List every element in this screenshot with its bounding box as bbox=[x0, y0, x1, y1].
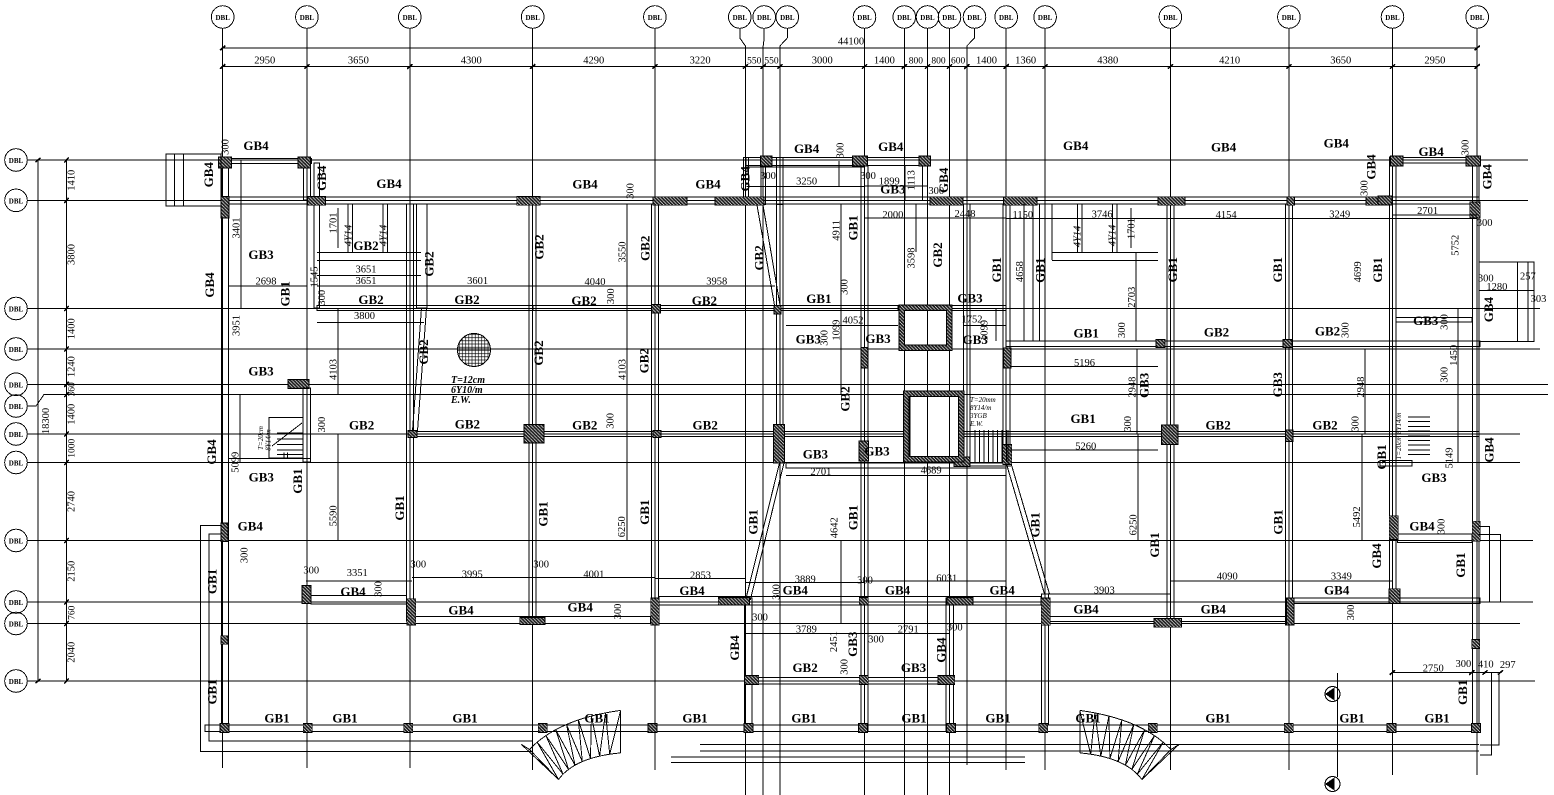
sloped beam D3 bbox=[1007, 465, 1050, 594]
svg-text:2451: 2451 bbox=[829, 631, 840, 652]
svg-text:DBL: DBL bbox=[403, 14, 418, 22]
svg-text:GB1: GB1 bbox=[264, 710, 289, 725]
beam GB1 y4 right bbox=[1006, 341, 1480, 347]
svg-text:GB4: GB4 bbox=[1481, 296, 1496, 322]
column bbox=[648, 724, 657, 733]
right balcony dim line bbox=[1479, 290, 1534, 292]
vbeam x1045 low bbox=[1042, 594, 1049, 725]
svg-text:GB1: GB1 bbox=[1205, 710, 1230, 725]
svg-text:3YGB: 3YGB bbox=[969, 412, 987, 420]
grid line V3 bbox=[399, 6, 422, 29]
svg-text:1113: 1113 bbox=[907, 170, 918, 190]
svg-text:300: 300 bbox=[1346, 605, 1357, 621]
svg-text:3746: 3746 bbox=[1092, 209, 1113, 220]
beam GB1 bottom bbox=[205, 725, 1480, 732]
svg-text:3903: 3903 bbox=[1094, 585, 1115, 596]
svg-text:GB2: GB2 bbox=[358, 292, 383, 307]
svg-text:DBL: DBL bbox=[9, 403, 24, 411]
svg-text:300: 300 bbox=[1437, 519, 1448, 535]
svg-text:GB1: GB1 bbox=[989, 257, 1004, 282]
column bbox=[859, 724, 868, 733]
svg-text:6031: 6031 bbox=[936, 573, 957, 584]
svg-text:600: 600 bbox=[951, 57, 966, 67]
beam GB4 row right bbox=[1288, 598, 1480, 603]
svg-text:GB2: GB2 bbox=[353, 238, 378, 253]
svg-text:DBL: DBL bbox=[9, 678, 24, 686]
svg-text:3250: 3250 bbox=[796, 176, 817, 187]
svg-text:GB1: GB1 bbox=[278, 281, 293, 306]
svg-text:GB3: GB3 bbox=[1136, 372, 1151, 398]
column bbox=[774, 306, 781, 315]
svg-text:4911: 4911 bbox=[831, 220, 842, 241]
svg-text:GB3: GB3 bbox=[248, 363, 274, 378]
dim line 3250 bbox=[746, 185, 864, 187]
beam GB1 y3 mid bbox=[533, 306, 898, 311]
svg-text:300: 300 bbox=[839, 659, 850, 675]
column bbox=[1470, 202, 1481, 218]
terrace outline left bbox=[201, 526, 533, 752]
column bbox=[298, 157, 311, 168]
vbeam x317 bbox=[314, 163, 320, 308]
dim line bbox=[626, 308, 628, 434]
svg-text:GB1: GB1 bbox=[1270, 509, 1285, 534]
svg-text:44100: 44100 bbox=[838, 37, 864, 48]
svg-text:4090: 4090 bbox=[1217, 572, 1238, 583]
column bbox=[718, 598, 749, 605]
overall dim 18300 bbox=[37, 160, 39, 681]
dim line 2000/2448 bbox=[865, 217, 1007, 219]
svg-text:300: 300 bbox=[772, 584, 783, 600]
svg-text:GB2: GB2 bbox=[1204, 325, 1229, 340]
svg-text:DBL: DBL bbox=[9, 157, 24, 165]
svg-text:300: 300 bbox=[868, 635, 884, 646]
grid line H11 bbox=[5, 612, 28, 635]
svg-text:DBL: DBL bbox=[9, 538, 24, 546]
dim line bbox=[1457, 394, 1459, 462]
grid line H1 bbox=[5, 149, 28, 172]
svg-text:GB4: GB4 bbox=[1063, 138, 1089, 153]
svg-text:GB4: GB4 bbox=[202, 272, 217, 298]
svg-text:DBL: DBL bbox=[967, 14, 982, 22]
svg-text:DBL: DBL bbox=[780, 14, 795, 22]
grid line H6 bbox=[5, 395, 28, 418]
small beams 4Y14 right bbox=[1078, 204, 1118, 252]
svg-text:DBL: DBL bbox=[757, 14, 772, 22]
column bbox=[954, 457, 970, 467]
svg-text:GB1: GB1 bbox=[332, 710, 357, 725]
vbeam x533 bbox=[529, 204, 536, 621]
svg-text:GB4: GB4 bbox=[1211, 140, 1237, 155]
column bbox=[1283, 340, 1292, 348]
grid line H5 bbox=[5, 373, 28, 396]
svg-text:760: 760 bbox=[68, 605, 78, 620]
grid line H12 bbox=[5, 670, 28, 693]
svg-text:4001: 4001 bbox=[583, 570, 604, 581]
dim line bbox=[1136, 349, 1138, 434]
dim line bbox=[786, 325, 898, 327]
column bbox=[919, 156, 931, 166]
svg-text:1150: 1150 bbox=[1012, 210, 1033, 221]
svg-text:300: 300 bbox=[374, 581, 385, 597]
svg-text:GB2: GB2 bbox=[422, 251, 437, 276]
dim line bbox=[317, 275, 421, 277]
svg-text:DBL: DBL bbox=[9, 460, 24, 468]
grid line V18 bbox=[1381, 6, 1404, 29]
svg-text:GB1: GB1 bbox=[584, 710, 609, 725]
svg-text:DBL: DBL bbox=[1470, 14, 1485, 22]
svg-text:DBL: DBL bbox=[9, 599, 24, 607]
svg-text:GB4: GB4 bbox=[1409, 519, 1435, 534]
svg-text:GB1: GB1 bbox=[1455, 680, 1470, 705]
shaft wall S1 bbox=[899, 305, 952, 350]
beam GB4 top-right room bbox=[1390, 158, 1480, 164]
svg-text:800: 800 bbox=[931, 57, 946, 67]
svg-text:GB2: GB2 bbox=[531, 340, 546, 365]
column bbox=[1162, 425, 1179, 445]
svg-text:6250: 6250 bbox=[1129, 514, 1140, 535]
svg-text:GB1: GB1 bbox=[535, 501, 550, 526]
vbeam x780 bbox=[777, 204, 784, 425]
svg-text:DBL: DBL bbox=[942, 14, 957, 22]
beam GB4 top-left room bbox=[219, 159, 312, 164]
dim line bbox=[1457, 308, 1459, 394]
vbeam x780 top bbox=[777, 158, 784, 205]
svg-text:GB4: GB4 bbox=[572, 177, 598, 192]
svg-text:GB3: GB3 bbox=[1413, 313, 1439, 328]
column bbox=[221, 523, 228, 542]
dim line bbox=[915, 204, 917, 252]
svg-text:3651: 3651 bbox=[356, 265, 377, 276]
column bbox=[1472, 640, 1480, 649]
svg-text:300: 300 bbox=[836, 143, 847, 159]
svg-text:4040: 4040 bbox=[585, 277, 606, 288]
svg-text:DBL: DBL bbox=[1163, 14, 1178, 22]
svg-text:300: 300 bbox=[857, 576, 873, 587]
svg-text:2701: 2701 bbox=[1417, 206, 1438, 217]
svg-text:GB1: GB1 bbox=[1074, 325, 1099, 340]
beam GB2 y3 left bbox=[317, 306, 533, 311]
grid line V17 bbox=[1278, 6, 1301, 29]
grid line H10 bbox=[5, 591, 28, 614]
svg-text:E.W.: E.W. bbox=[450, 395, 471, 406]
column bbox=[1003, 445, 1012, 465]
beam GB2 y7 bbox=[409, 432, 1479, 437]
svg-text:1701: 1701 bbox=[1127, 218, 1138, 239]
svg-text:2750: 2750 bbox=[1423, 664, 1444, 675]
column bbox=[517, 197, 541, 206]
svg-text:1545: 1545 bbox=[310, 267, 321, 288]
svg-text:GB4: GB4 bbox=[1481, 437, 1496, 463]
svg-text:4290: 4290 bbox=[583, 56, 604, 67]
svg-text:DBL: DBL bbox=[9, 381, 24, 389]
dim line bbox=[1045, 593, 1170, 595]
beam GB2 bottom room bbox=[745, 678, 955, 684]
grid line V15 bbox=[1034, 6, 1057, 29]
svg-text:2701: 2701 bbox=[810, 467, 831, 478]
svg-text:GB4: GB4 bbox=[1364, 154, 1379, 180]
svg-text:3800: 3800 bbox=[354, 311, 375, 322]
svg-text:DBL: DBL bbox=[300, 14, 315, 22]
dim line bbox=[337, 308, 339, 394]
svg-text:GB3: GB3 bbox=[803, 447, 829, 462]
grid line V19 bbox=[1466, 6, 1489, 29]
svg-text:300: 300 bbox=[820, 330, 831, 346]
svg-text:1000: 1000 bbox=[68, 439, 78, 458]
svg-text:GB2: GB2 bbox=[752, 245, 767, 270]
svg-text:5590: 5590 bbox=[329, 505, 340, 526]
svg-text:1360: 1360 bbox=[1015, 56, 1036, 67]
dim line bbox=[1361, 434, 1363, 540]
svg-text:GB4: GB4 bbox=[1324, 135, 1350, 150]
svg-text:300: 300 bbox=[1440, 367, 1451, 383]
svg-text:GB1: GB1 bbox=[1070, 411, 1095, 426]
column bbox=[404, 724, 413, 733]
svg-text:GB2: GB2 bbox=[572, 417, 597, 432]
svg-text:GB2: GB2 bbox=[692, 293, 717, 308]
svg-text:4154: 4154 bbox=[1216, 210, 1238, 221]
vbeam x745 top bbox=[743, 158, 748, 205]
svg-text:3598: 3598 bbox=[907, 248, 918, 269]
bottom right dim line bbox=[1392, 672, 1500, 674]
svg-text:GB1: GB1 bbox=[452, 710, 477, 725]
column bbox=[947, 598, 973, 605]
grid line V13 bbox=[963, 6, 986, 29]
svg-text:4380: 4380 bbox=[1097, 56, 1118, 67]
beam GB3 y3 right bbox=[952, 306, 1006, 311]
svg-text:GB2: GB2 bbox=[838, 386, 853, 411]
svg-text:3601: 3601 bbox=[467, 276, 488, 287]
beam GB3 right bbox=[1396, 318, 1472, 323]
svg-text:300: 300 bbox=[317, 290, 328, 306]
svg-text:1280: 1280 bbox=[1486, 282, 1507, 293]
column bbox=[308, 197, 326, 206]
column bbox=[1158, 197, 1185, 206]
svg-text:550: 550 bbox=[747, 57, 762, 67]
grid line V2 bbox=[296, 6, 319, 29]
column bbox=[1472, 521, 1480, 541]
svg-text:GB4: GB4 bbox=[878, 139, 904, 154]
column bbox=[1156, 340, 1165, 348]
svg-text:GB4: GB4 bbox=[340, 584, 366, 599]
vbeam x1288 bbox=[1285, 204, 1292, 625]
svg-text:300: 300 bbox=[1456, 659, 1472, 670]
svg-text:DBL: DBL bbox=[9, 431, 24, 439]
column bbox=[407, 599, 416, 625]
svg-text:2703: 2703 bbox=[1127, 287, 1138, 308]
svg-text:300: 300 bbox=[613, 604, 624, 620]
svg-text:2040: 2040 bbox=[67, 642, 78, 663]
vbeam x1036 bbox=[1033, 204, 1040, 341]
svg-text:GB2: GB2 bbox=[349, 418, 374, 433]
svg-text:1240: 1240 bbox=[67, 356, 78, 377]
partition lines top-center bbox=[746, 166, 865, 168]
column bbox=[653, 431, 661, 438]
section line bbox=[1337, 673, 1339, 777]
dim arrows 1701 left bbox=[337, 208, 339, 248]
svg-text:GB1: GB1 bbox=[901, 710, 926, 725]
svg-text:300: 300 bbox=[1461, 140, 1472, 156]
svg-text:1400: 1400 bbox=[67, 318, 78, 339]
svg-text:GB2: GB2 bbox=[416, 339, 431, 364]
overall dim 44100 bbox=[223, 47, 1478, 49]
svg-text:4642: 4642 bbox=[830, 517, 841, 538]
svg-text:300: 300 bbox=[606, 288, 617, 304]
svg-text:2950: 2950 bbox=[1424, 56, 1445, 67]
svg-text:GB2: GB2 bbox=[532, 234, 547, 259]
svg-text:GB1: GB1 bbox=[1339, 710, 1364, 725]
grid line V6 bbox=[729, 6, 752, 29]
svg-text:300: 300 bbox=[928, 186, 944, 197]
svg-text:GB4: GB4 bbox=[794, 141, 820, 156]
svg-text:GB1: GB1 bbox=[1165, 257, 1180, 282]
svg-text:GB1: GB1 bbox=[1270, 257, 1285, 282]
svg-text:3800: 3800 bbox=[67, 244, 78, 265]
svg-text:800: 800 bbox=[909, 57, 924, 67]
column bbox=[938, 676, 955, 685]
dim line bbox=[1137, 434, 1139, 540]
column bbox=[220, 724, 229, 733]
svg-text:GB4: GB4 bbox=[737, 166, 752, 192]
dim line bbox=[1010, 366, 1158, 368]
column bbox=[1039, 724, 1048, 733]
svg-text:1410: 1410 bbox=[67, 170, 78, 191]
svg-text:1400: 1400 bbox=[874, 56, 895, 67]
hatched circle column bbox=[458, 334, 491, 367]
svg-text:2150: 2150 bbox=[67, 561, 78, 582]
column bbox=[302, 586, 311, 604]
shaft wall S2 bbox=[903, 391, 964, 462]
dim line bbox=[840, 308, 842, 394]
svg-text:3789: 3789 bbox=[796, 625, 817, 636]
dim line bbox=[864, 580, 1006, 582]
fan stair left bbox=[522, 710, 621, 779]
vbeam x421 bbox=[417, 204, 428, 308]
svg-text:3220: 3220 bbox=[690, 56, 711, 67]
svg-text:2948: 2948 bbox=[1128, 377, 1139, 398]
column bbox=[1287, 598, 1295, 625]
column bbox=[1389, 516, 1398, 540]
svg-text:GB4: GB4 bbox=[1324, 583, 1350, 598]
grid line H8 bbox=[5, 451, 28, 474]
vbeam x746 room bbox=[745, 598, 752, 731]
svg-text:4658: 4658 bbox=[1015, 261, 1026, 282]
svg-text:GB4: GB4 bbox=[1418, 144, 1444, 159]
svg-text:DBL: DBL bbox=[9, 306, 24, 314]
svg-text:GB3: GB3 bbox=[864, 444, 890, 459]
dim line bbox=[840, 204, 842, 308]
svg-text:GB3: GB3 bbox=[1270, 372, 1285, 398]
dim line bbox=[306, 580, 412, 582]
svg-text:3351: 3351 bbox=[347, 568, 368, 579]
svg-text:GB4: GB4 bbox=[1479, 164, 1494, 190]
svg-text:3650: 3650 bbox=[1330, 56, 1351, 67]
dim line bbox=[317, 285, 775, 287]
svg-text:4103: 4103 bbox=[329, 359, 340, 380]
svg-text:E.W.: E.W. bbox=[969, 420, 983, 428]
dim line bbox=[746, 582, 864, 584]
grid line V4 bbox=[521, 6, 544, 29]
svg-text:GB4: GB4 bbox=[885, 583, 911, 598]
svg-text:4Y14: 4Y14 bbox=[379, 224, 390, 246]
svg-text:300: 300 bbox=[752, 613, 768, 624]
fan stair right bbox=[1080, 710, 1179, 779]
column bbox=[1378, 196, 1392, 205]
svg-text:GB1: GB1 bbox=[1075, 710, 1100, 725]
svg-text:GB4: GB4 bbox=[1369, 543, 1384, 569]
svg-text:GB4: GB4 bbox=[201, 162, 216, 188]
column bbox=[745, 676, 759, 685]
svg-text:GB2: GB2 bbox=[930, 242, 945, 267]
svg-text:257: 257 bbox=[1520, 272, 1536, 283]
svg-text:DBL: DBL bbox=[733, 14, 748, 22]
svg-text:1400: 1400 bbox=[67, 404, 78, 425]
svg-text:1450: 1450 bbox=[1449, 345, 1460, 366]
svg-text:GB4: GB4 bbox=[238, 519, 264, 534]
svg-text:DBL: DBL bbox=[897, 14, 912, 22]
vbeam x966 bbox=[963, 204, 970, 457]
grid line V12 bbox=[938, 6, 961, 29]
dim line bbox=[626, 204, 628, 434]
svg-text:18300: 18300 bbox=[41, 408, 52, 434]
dim line bbox=[337, 434, 339, 540]
vbeam x306 room bbox=[304, 163, 311, 200]
svg-text:GB1: GB1 bbox=[682, 710, 707, 725]
svg-text:300: 300 bbox=[1123, 416, 1134, 432]
small beams 4Y14 left bbox=[348, 204, 388, 252]
svg-text:GB2: GB2 bbox=[1312, 417, 1337, 432]
grid line H2 bbox=[5, 189, 28, 212]
svg-text:GB4: GB4 bbox=[314, 165, 329, 191]
beam GB4 row main bbox=[659, 597, 1041, 605]
vbeam x1006 bbox=[1003, 204, 1010, 462]
svg-text:GB4: GB4 bbox=[204, 439, 219, 465]
svg-text:4Y14: 4Y14 bbox=[1073, 225, 1084, 247]
stair room beam bbox=[228, 458, 310, 460]
terrace outline right bbox=[1480, 673, 1499, 756]
staircase top-right bbox=[1408, 417, 1430, 455]
svg-text:300: 300 bbox=[760, 171, 776, 182]
dim line bbox=[746, 633, 864, 635]
vbeam right edge bbox=[1472, 157, 1479, 731]
dim line bbox=[412, 577, 533, 579]
svg-text:3550: 3550 bbox=[618, 242, 629, 263]
svg-text:6250: 6250 bbox=[617, 516, 628, 537]
svg-text:2791: 2791 bbox=[898, 625, 919, 636]
vbeam x949 room bbox=[946, 598, 953, 731]
svg-text:1099: 1099 bbox=[980, 320, 991, 341]
svg-text:GB1: GB1 bbox=[1032, 258, 1047, 283]
svg-text:DBL: DBL bbox=[215, 14, 230, 22]
dim line bbox=[864, 633, 950, 635]
beam GB4 main y2 bbox=[221, 197, 1479, 204]
svg-text:GB4: GB4 bbox=[695, 177, 721, 192]
sloped beam D2 bbox=[746, 463, 784, 600]
svg-text:8Y14/m: 8Y14/m bbox=[970, 404, 991, 412]
column bbox=[652, 305, 661, 314]
svg-text:300: 300 bbox=[860, 171, 876, 182]
dim line bbox=[1010, 449, 1158, 451]
svg-text:300: 300 bbox=[947, 622, 963, 633]
svg-text:DBL: DBL bbox=[1038, 14, 1053, 22]
svg-text:DBL: DBL bbox=[857, 14, 872, 22]
svg-text:GB1: GB1 bbox=[1370, 257, 1385, 282]
svg-text:GB1: GB1 bbox=[290, 468, 305, 493]
vbeam x655 bbox=[651, 204, 658, 598]
svg-text:DBL: DBL bbox=[1282, 14, 1297, 22]
svg-text:5752: 5752 bbox=[1451, 235, 1462, 256]
svg-text:GB2: GB2 bbox=[1315, 324, 1340, 339]
svg-text:5492: 5492 bbox=[1352, 506, 1363, 527]
